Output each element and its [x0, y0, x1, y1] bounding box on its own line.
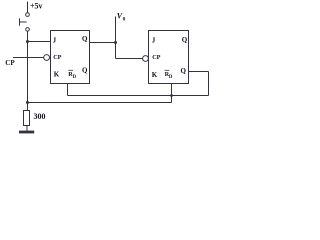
svg-text:CP: CP — [152, 54, 160, 61]
svg-text:Q: Q — [82, 35, 88, 43]
resistor R1 value 300 — [34, 112, 46, 121]
flip-flop U2 box — [149, 31, 189, 84]
svg-text:Q: Q — [82, 67, 88, 75]
switch S lever — [20, 18, 27, 25]
pin Q label U1 — [82, 35, 88, 43]
wire resistor to ground — [26, 126, 28, 132]
svg-text:Q: Q — [182, 36, 188, 44]
overline RD U2 — [165, 69, 170, 71]
wire to J input of U1 — [28, 41, 51, 43]
wire RD2 stub — [171, 84, 173, 103]
wire left rail — [27, 31, 29, 110]
wire RD1 stub — [67, 84, 69, 96]
wire to CP of U2 — [116, 58, 143, 60]
switch S lower contact — [26, 28, 30, 32]
ground — [19, 131, 34, 134]
pin CP label U2 — [152, 54, 160, 61]
power +5v label — [30, 2, 43, 11]
svg-text:K: K — [54, 70, 60, 78]
svg-text:+5v: +5v — [30, 2, 43, 11]
wire Q1 output — [90, 42, 116, 44]
inverter bubble CP U2 — [143, 56, 149, 62]
wire +5v stub — [27, 2, 29, 13]
pin K label U2 — [152, 71, 158, 79]
node RD2 junction — [170, 94, 173, 97]
wire Vo stub — [115, 17, 117, 43]
node rail junction — [26, 101, 29, 104]
svg-text:J: J — [152, 37, 156, 45]
svg-text:300: 300 — [34, 112, 46, 121]
pin CP label U1 — [53, 54, 61, 61]
pin Qbar label U1 — [82, 67, 88, 75]
svg-text:CP: CP — [5, 59, 15, 67]
wire right drop — [208, 72, 210, 96]
wire Q1 down segment — [115, 43, 117, 59]
switch S upper contact — [26, 13, 30, 17]
node CP input label — [5, 59, 15, 67]
node J1 junction — [26, 40, 29, 43]
wire CP input — [13, 57, 44, 59]
pin J label U1 — [53, 36, 57, 44]
pin Qbar label U2 — [181, 67, 187, 75]
svg-text:Q: Q — [181, 67, 187, 75]
pin K label U1 — [54, 70, 60, 78]
inverter bubble CP U1 — [44, 55, 50, 61]
wire Qbar2 output — [189, 71, 209, 73]
pin Q label U2 — [182, 36, 188, 44]
svg-text:K: K — [152, 71, 158, 79]
wire RD bus — [68, 95, 209, 97]
wire reset bus — [28, 102, 172, 104]
svg-text:J: J — [53, 36, 57, 44]
pin RD label U1 — [68, 71, 76, 80]
pin J label U2 — [152, 37, 156, 45]
svg-text:D: D — [169, 75, 173, 80]
pin RD label U2 — [165, 71, 173, 80]
node Vo label — [117, 11, 126, 22]
flip-flop U1 box — [51, 31, 90, 84]
svg-text:D: D — [73, 75, 77, 80]
node Vo junction — [114, 41, 117, 44]
svg-text:0: 0 — [123, 17, 126, 23]
overline RD U1 — [68, 69, 73, 71]
svg-text:CP: CP — [53, 54, 61, 61]
resistor R1 body — [24, 111, 30, 126]
